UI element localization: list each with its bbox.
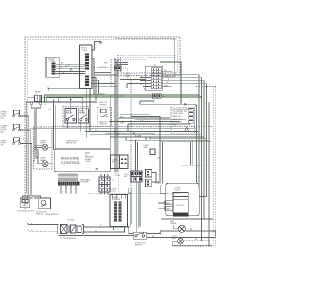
svg-text:2: 2 <box>24 128 25 130</box>
extra mesh wires <box>94 63 128 76</box>
svg-text:3: 3 <box>23 139 24 141</box>
svg-text:3: 3 <box>93 84 94 86</box>
svg-text:DOOR UNLOCK SW: DOOR UNLOCK SW <box>17 211 34 213</box>
wires TOD down <box>136 140 141 232</box>
svg-text:FAN: FAN <box>144 146 148 149</box>
wire down from U1 <box>86 89 90 139</box>
svg-text:K1: K1 <box>49 109 51 111</box>
fan wires <box>172 225 212 245</box>
junction dots <box>65 66 66 67</box>
wires right boxes to door lock <box>152 160 160 183</box>
chain output wires <box>59 227 134 236</box>
svg-text:CAM2: CAM2 <box>166 207 171 210</box>
svg-text:L1: L1 <box>112 180 114 182</box>
svg-text:BAKE 18.4: BAKE 18.4 <box>173 115 182 118</box>
J pin drop wires <box>31 105 42 162</box>
wires into P1 left <box>140 78 151 87</box>
svg-text:BROIL 24.1: BROIL 24.1 <box>173 119 182 121</box>
door lock switch comp <box>133 232 146 239</box>
svg-text:LESS: LESS <box>125 76 131 78</box>
svg-text:GRD: GRD <box>173 124 178 126</box>
svg-text:T-3: T-3 <box>95 130 97 132</box>
wires P3 to oven control <box>56 64 85 73</box>
frame right lower dashed <box>172 86 216 248</box>
svg-text:SWITCH: SWITCH <box>135 245 143 247</box>
svg-text:CONN: CONN <box>115 175 121 177</box>
relay K2 <box>78 109 88 123</box>
door unlock switch box A <box>20 198 30 208</box>
svg-text:2: 2 <box>93 81 94 83</box>
wire L1 <box>28 98 83 114</box>
door lock left wires <box>158 185 166 208</box>
svg-text:HI LIMIT: HI LIMIT <box>68 220 76 222</box>
svg-text:DEVICE: DEVICE <box>99 104 107 106</box>
transformer T1 <box>110 195 128 227</box>
TOD grid <box>131 171 142 182</box>
lamp dashed box <box>34 127 53 169</box>
svg-text:LOCK: LOCK <box>175 190 181 192</box>
stair corners <box>126 124 150 140</box>
small boxes right of TOD <box>146 170 152 187</box>
switch wires to bundle <box>20 116 40 198</box>
svg-text:WIRE CONN: WIRE CONN <box>173 113 184 115</box>
svg-text:BK-W: BK-W <box>100 94 105 96</box>
wire code labels <box>23 63 198 242</box>
wire U1 to right vertical <box>92 58 110 166</box>
right vertical wires <box>197 75 210 246</box>
J5 drops <box>61 185 76 193</box>
svg-text:P2-5: P2-5 <box>140 120 144 122</box>
lamp feed wires <box>34 146 52 164</box>
svg-text:2: 2 <box>190 194 191 196</box>
band wires 2 <box>105 115 186 133</box>
svg-text:1: 1 <box>167 193 168 195</box>
svg-text:CONT: CONT <box>81 50 88 52</box>
left lower verticals to boxes <box>23 197 41 199</box>
svg-text:LATCH SW: LATCH SW <box>66 142 76 145</box>
svg-text:MOTOR: MOTOR <box>177 205 185 207</box>
svg-text:CONN: CONN <box>85 161 91 163</box>
oven box top <box>26 102 97 193</box>
green pair wires to right side <box>45 95 202 97</box>
dashed box around relays <box>63 107 90 128</box>
svg-text:CONTROL: CONTROL <box>61 160 81 165</box>
connector P1 assembly <box>145 66 163 98</box>
connector P3 <box>46 57 59 77</box>
svg-text:BLADE: BLADE <box>170 222 177 225</box>
wire DSI <box>94 68 127 80</box>
wire top bus <box>115 38 175 77</box>
frame bottom dashed <box>88 192 180 194</box>
svg-text:RELAY: RELAY <box>79 111 86 114</box>
oven control module U1 <box>79 45 92 89</box>
svg-text:SW: SW <box>1 132 4 134</box>
svg-text:1: 1 <box>24 113 25 115</box>
COM boxes <box>111 155 128 169</box>
bottom long wires <box>147 231 216 238</box>
frame outer dashed <box>25 37 180 209</box>
svg-text:LOCK: LOCK <box>111 191 117 193</box>
wire P1 top right green <box>160 62 181 104</box>
frame inner dashed <box>28 40 178 207</box>
ground <box>99 43 103 45</box>
wires top feed P1 <box>120 79 146 88</box>
svg-text:CONV 29.3: CONV 29.3 <box>173 122 182 124</box>
svg-text:OVEN SENSOR: OVEN SENSOR <box>45 214 59 216</box>
svg-text:FORMER: FORMER <box>112 199 121 201</box>
wire U1 left long <box>48 88 82 91</box>
relay drop wires <box>68 121 87 135</box>
center verticals <box>115 58 117 172</box>
svg-text:SWITCH: SWITCH <box>36 214 44 216</box>
svg-text:T1: T1 <box>142 172 144 174</box>
svg-text:1: 1 <box>93 78 94 80</box>
svg-text:BU-GY: BU-GY <box>135 135 141 137</box>
wires J1 down <box>54 100 56 151</box>
svg-text:T2: T2 <box>142 180 144 182</box>
svg-text:TO OVEN SENSOR: TO OVEN SENSOR <box>60 238 77 240</box>
svg-text:SW: SW <box>1 145 4 147</box>
ground wire from U1 <box>91 42 101 51</box>
relay K1 <box>65 109 77 124</box>
dashed vertical center <box>119 59 132 193</box>
connector grid G1 <box>99 177 110 192</box>
wires U1 lower col to right <box>91 78 117 101</box>
svg-text:J2: J2 <box>36 98 38 100</box>
svg-text:RELAY: RELAY <box>66 111 73 114</box>
connector detail legend <box>171 107 195 133</box>
wires out P1 right <box>161 72 206 87</box>
dashed band wire <box>52 126 213 128</box>
J5 pin strip <box>59 174 77 182</box>
machine control box <box>55 149 111 172</box>
svg-text:CONN: CONN <box>49 61 56 63</box>
svg-text:CONN BKT: CONN BKT <box>80 182 90 184</box>
bottom right wires <box>162 219 213 245</box>
door lock switch box B <box>38 198 50 209</box>
svg-text:CAM1: CAM1 <box>166 202 171 205</box>
dashed corner right mid <box>182 165 207 180</box>
svg-text:J1: J1 <box>44 104 46 106</box>
door lock assembly <box>165 183 199 216</box>
hook wires left <box>28 223 58 225</box>
svg-text:P2-3: P2-3 <box>120 116 124 118</box>
chain components <box>57 225 83 234</box>
transformer drop wires <box>114 188 132 232</box>
J pins <box>30 102 32 104</box>
svg-text:SW: SW <box>1 118 4 120</box>
dense center band wires <box>30 117 212 161</box>
DSI module <box>114 66 121 70</box>
console dashed corner <box>111 59 146 88</box>
svg-text:SWITCH: SWITCH <box>100 124 108 126</box>
arrow wire right <box>140 101 195 107</box>
